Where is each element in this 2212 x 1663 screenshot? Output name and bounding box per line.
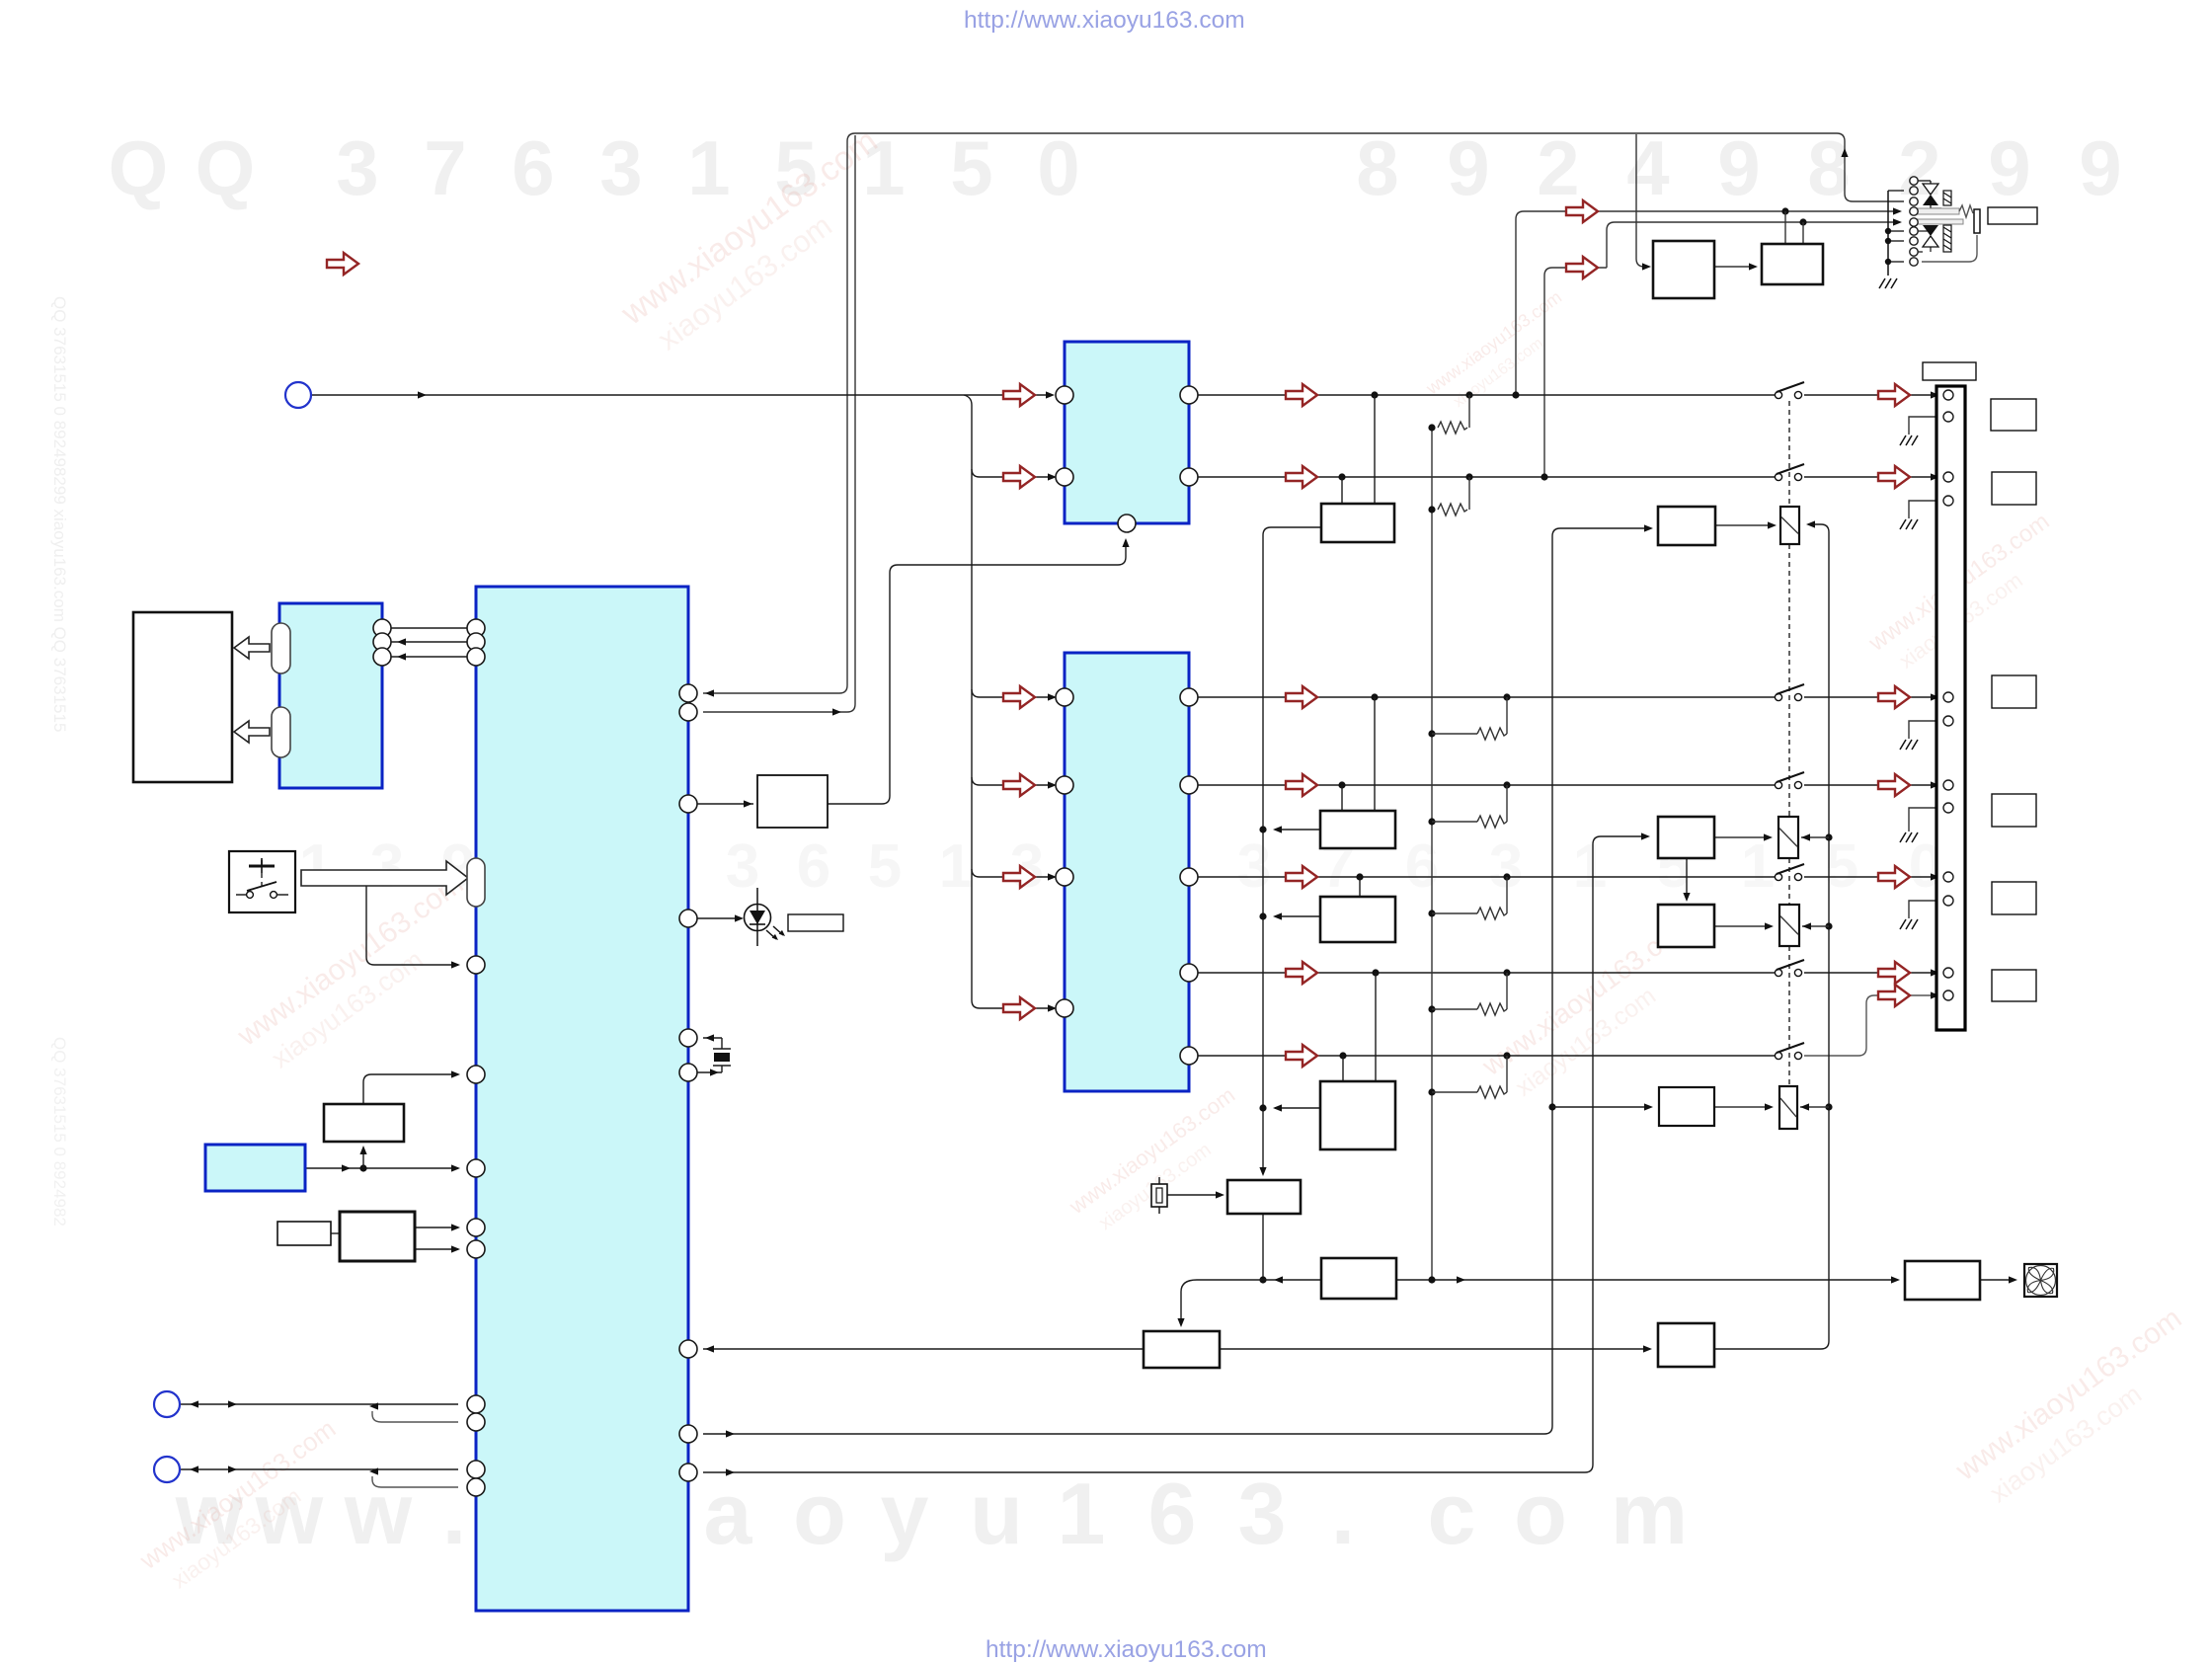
svg-text:o: o bbox=[1514, 1465, 1567, 1562]
svg-text:5: 5 bbox=[1825, 832, 1858, 901]
svg-text:w: w bbox=[344, 1465, 413, 1562]
svg-text:1: 1 bbox=[1573, 832, 1607, 901]
svg-text:9: 9 bbox=[1717, 124, 1760, 211]
svg-text:1: 1 bbox=[687, 124, 730, 211]
svg-text:QQ 37631515 0 8924982: QQ 37631515 0 8924982 bbox=[50, 1037, 69, 1227]
svg-text:9: 9 bbox=[2079, 124, 2121, 211]
svg-text:2: 2 bbox=[1537, 124, 1579, 211]
svg-text:6: 6 bbox=[512, 124, 554, 211]
svg-text:7: 7 bbox=[424, 124, 466, 211]
svg-text:3: 3 bbox=[336, 124, 378, 211]
svg-text:3: 3 bbox=[1489, 832, 1523, 901]
svg-text:http://www.xiaoyu163.com: http://www.xiaoyu163.com bbox=[986, 1636, 1267, 1663]
svg-text:.: . bbox=[1331, 1465, 1355, 1562]
svg-text:3: 3 bbox=[1238, 1465, 1287, 1562]
svg-text:1: 1 bbox=[299, 832, 333, 901]
svg-text:6: 6 bbox=[1148, 1465, 1197, 1562]
svg-text:3: 3 bbox=[599, 124, 642, 211]
svg-text:y: y bbox=[881, 1465, 929, 1562]
svg-text:c: c bbox=[1428, 1465, 1476, 1562]
svg-text:Q: Q bbox=[109, 124, 169, 211]
svg-text:u: u bbox=[970, 1465, 1023, 1562]
svg-text:4: 4 bbox=[1626, 124, 1669, 211]
svg-text:9: 9 bbox=[1988, 124, 2030, 211]
svg-text:.: . bbox=[442, 1465, 466, 1562]
svg-text:3: 3 bbox=[726, 832, 759, 901]
svg-text:QQ 37631515 0 892498299 xiaoyu: QQ 37631515 0 892498299 xiaoyu163.com QQ… bbox=[50, 296, 69, 732]
svg-text:0: 0 bbox=[1037, 124, 1079, 211]
svg-text:6: 6 bbox=[797, 832, 830, 901]
svg-text:Q: Q bbox=[196, 124, 256, 211]
svg-text:6: 6 bbox=[1405, 832, 1439, 901]
svg-text:o: o bbox=[793, 1465, 846, 1562]
svg-text:a: a bbox=[704, 1465, 753, 1562]
svg-text:9: 9 bbox=[1447, 124, 1489, 211]
svg-text:5: 5 bbox=[950, 124, 992, 211]
svg-text:http://www.xiaoyu163.com: http://www.xiaoyu163.com bbox=[964, 7, 1245, 34]
svg-text:5: 5 bbox=[868, 832, 902, 901]
svg-text:1: 1 bbox=[1058, 1465, 1106, 1562]
svg-text:3: 3 bbox=[370, 832, 404, 901]
svg-text:3: 3 bbox=[1010, 832, 1044, 901]
svg-text:1: 1 bbox=[939, 832, 973, 901]
svg-text:m: m bbox=[1611, 1465, 1688, 1562]
svg-text:3: 3 bbox=[1237, 832, 1271, 901]
svg-text:1: 1 bbox=[1741, 832, 1775, 901]
svg-text:2: 2 bbox=[1898, 124, 1940, 211]
svg-text:8: 8 bbox=[1356, 124, 1398, 211]
